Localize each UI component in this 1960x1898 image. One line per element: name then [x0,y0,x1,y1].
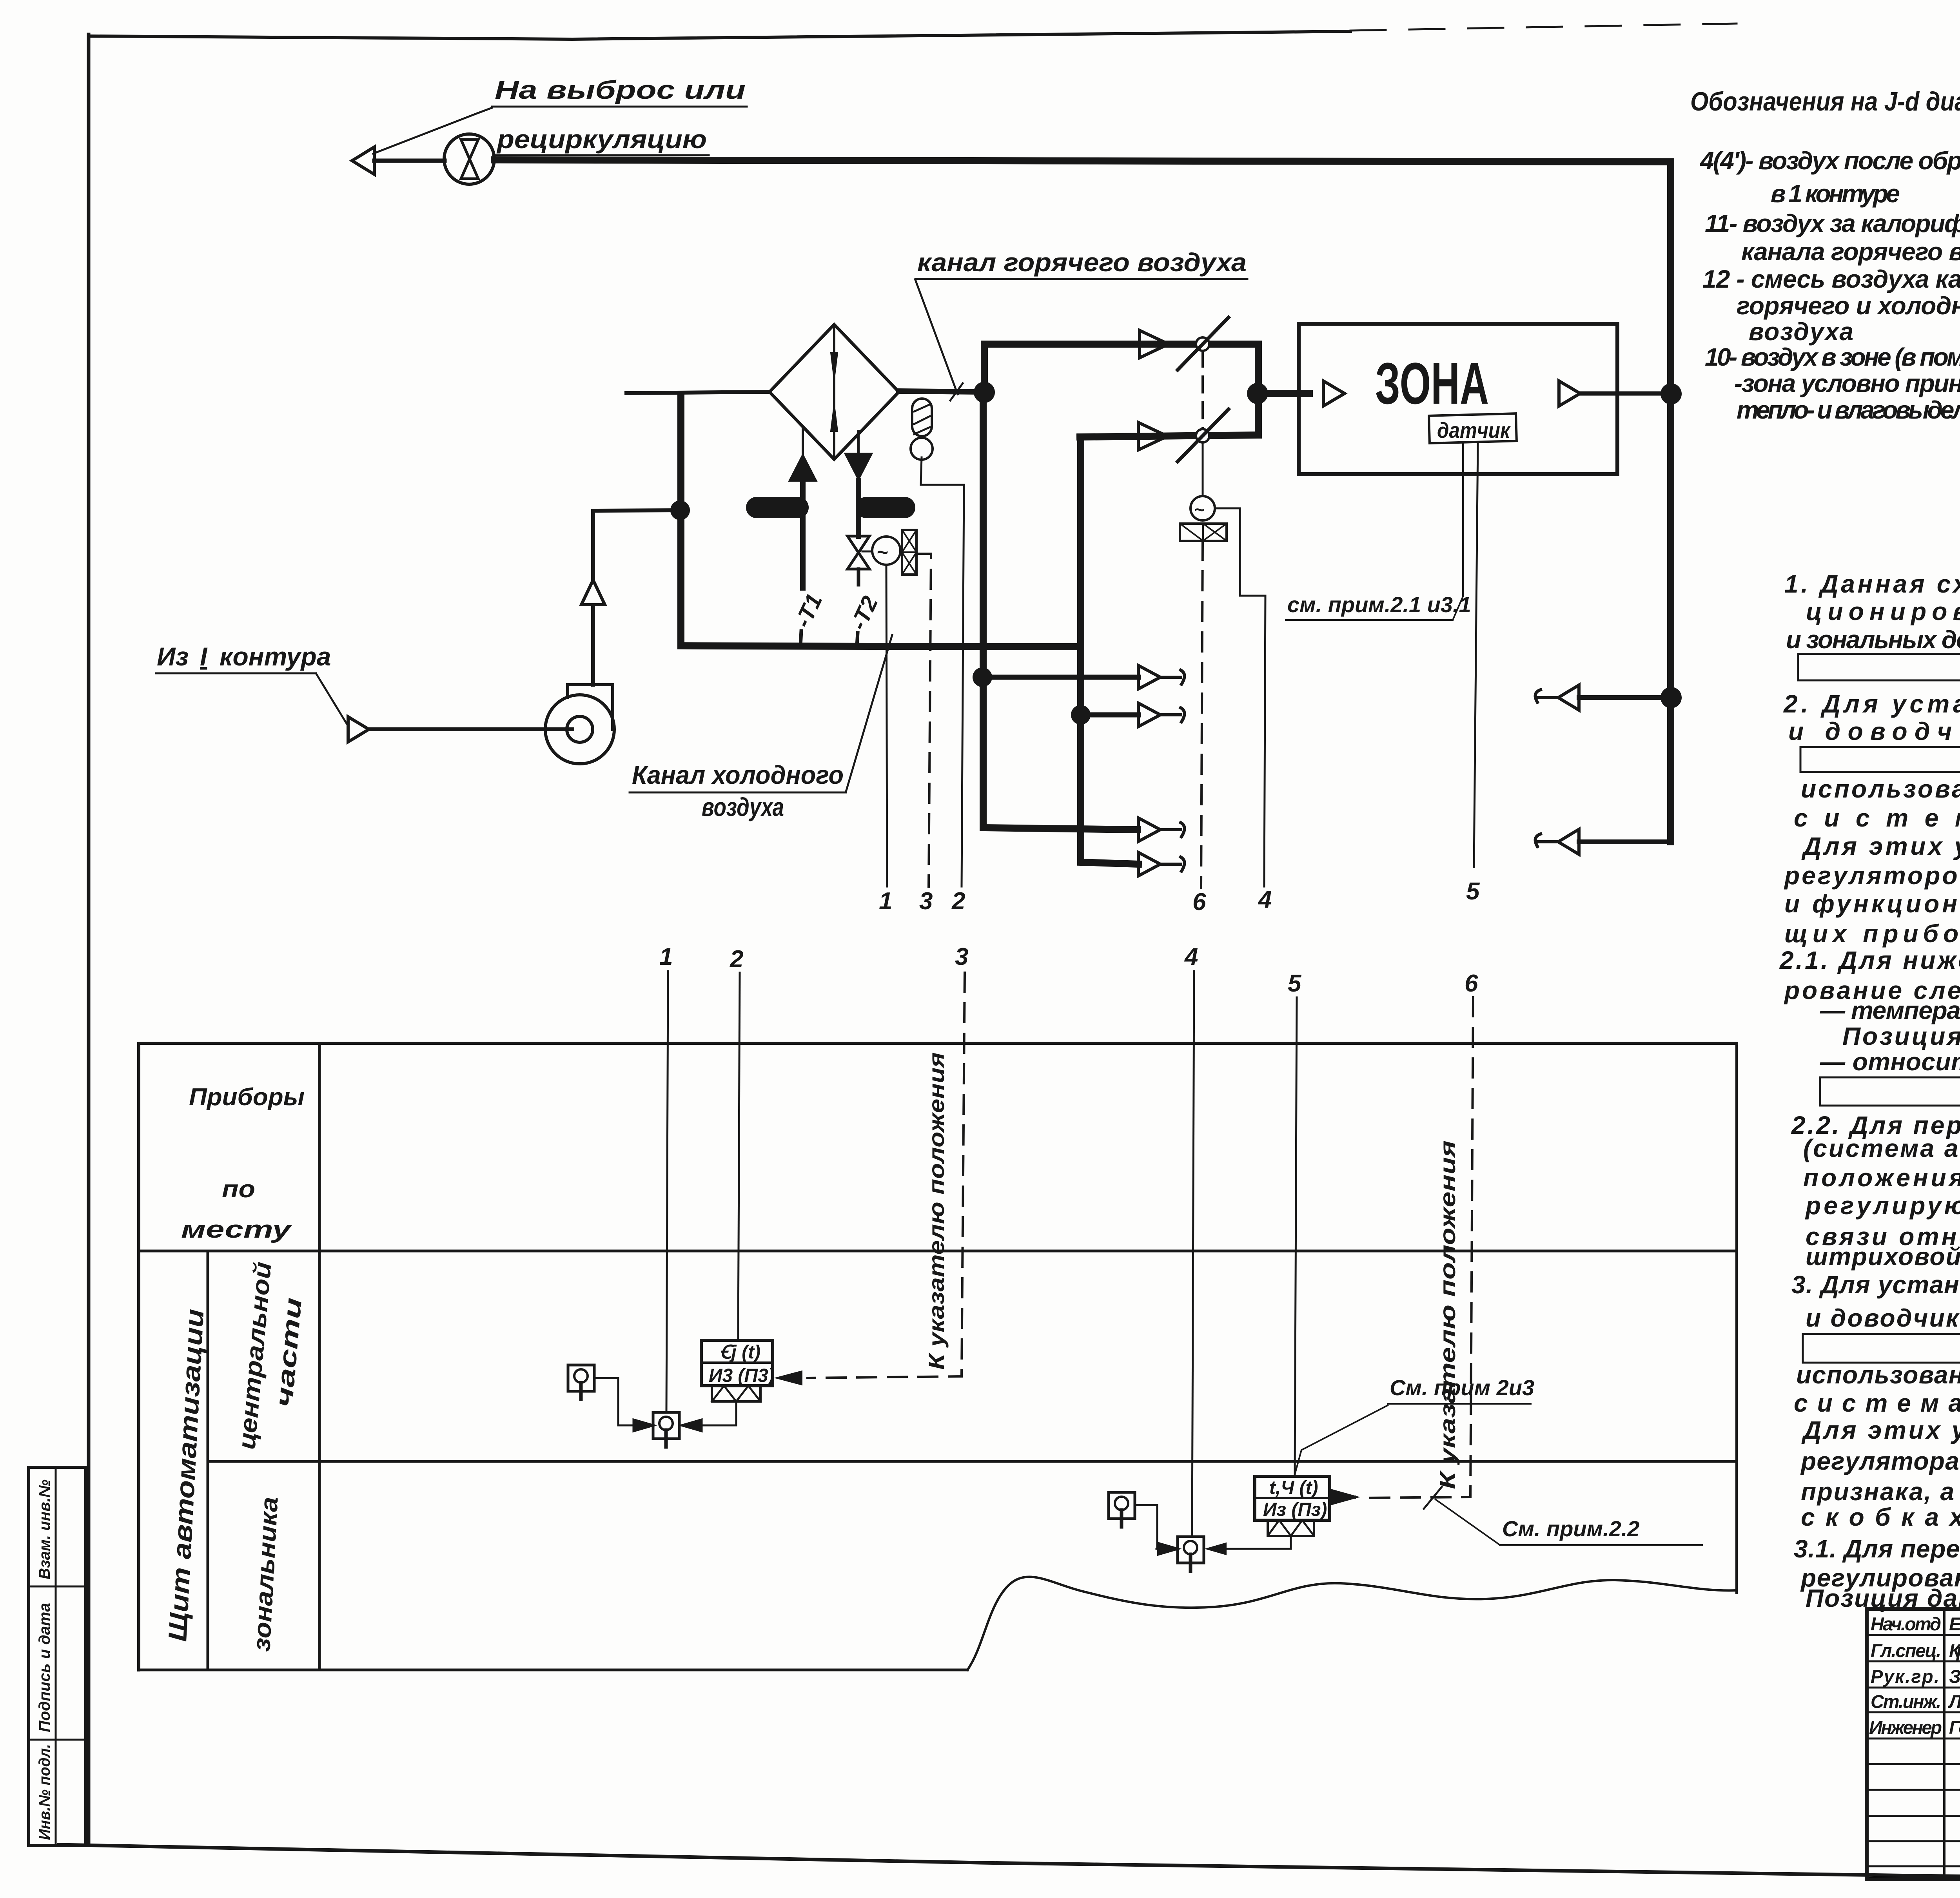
wire recirculation line (return duct top) [494,160,1671,162]
svg-text:11- воздух за калорифером: 11- воздух за калорифером [1705,209,1960,237]
label 2 row1 [951,888,965,915]
label 5 row1 [1466,878,1480,905]
label zonalnika (rotated) [248,1496,283,1652]
zone box [1299,324,1617,474]
svg-text:~: ~ [1194,499,1205,520]
damper position transmitter (rect with X) [1180,524,1227,541]
svg-text:ционирования: ционирования [1806,597,1960,625]
label sm prim 2.1 i 3.1 [1287,592,1471,617]
wire mixed air out [1258,390,1309,397]
arrow into zone (hollow right) [1323,381,1345,406]
svg-text:использован регулирующий прибо: использован регулирующий прибор РТЗ с им… [1796,1361,1960,1389]
heat exchanger diamond [769,324,899,459]
svg-text:датчик: датчик [1437,418,1511,442]
wire main line left stub [626,392,769,393]
regulator 2 actuator (zigzag) [1268,1520,1314,1536]
wire damper to motor [1202,442,1204,496]
svg-text:5: 5 [1466,878,1480,905]
svg-text:Ꞓj (t): Ꞓj (t) [720,1342,760,1363]
valve position transmitter (rect with X) [902,530,916,575]
svg-text:ЗОНА: ЗОНА [1375,350,1489,416]
wire into fan [369,727,572,731]
wire zone feed 2 [1081,712,1138,718]
panel table column shchit [207,1251,209,1670]
heat exchanger internal line with arrows [833,324,835,459]
fill-in box note2 c [1800,747,1960,772]
label K ukazatelyu polozheniya 1 [924,1052,949,1370]
leader kanal kholodnogo [846,635,892,792]
svg-text:— температуры, доводчики: — температуры, доводчики [1820,996,1960,1024]
svg-text:-зона условно принята с: -зона условно принята с [1734,369,1960,397]
arrow T1 up (solid) [789,454,817,481]
wire signal line 4 (damper motor control) [1215,508,1265,886]
label 4 row2 [1184,943,1198,970]
svg-text:3. Для установок: 3. Для установок [1791,1271,1960,1299]
panel table row line 1 [139,1250,1737,1253]
tail zone feed 1 [1160,670,1185,684]
label Iz I kontura [157,642,331,671]
arrow zone feed 4 (hollow right) [1138,852,1160,876]
sensor instrument 2 (square with circle) [1109,1492,1135,1519]
panel table column mesto [318,1043,321,1670]
arrow zone feed 1 (hollow right) [1138,665,1160,689]
svg-text:6: 6 [1465,970,1478,997]
arrow hot lower (hollow right) [1138,422,1167,450]
wire T2 dash to cold duct [857,633,858,646]
node cold/main tee [670,500,690,520]
sheet frame left border [87,34,91,1844]
arrow zone feed 2 (hollow right) [1138,703,1160,727]
wire signal line 1 (valve motor control) [886,565,887,886]
svg-text:канала горячего воздуха: канала горячего воздуха [1741,237,1960,266]
arrow out of regulator 2 (solid right) [1330,1491,1354,1503]
wire sensor1 to mixer1 [594,1378,646,1425]
arrow fan outlet (hollow, up) [581,580,605,605]
svg-text:тепло- и влаговыделениями: тепло- и влаговыделениями [1737,396,1960,424]
wire T1 dash to cold duct [800,631,801,646]
label 1 row1 [879,888,892,915]
svg-text:и зональных доводчиков: и зональных доводчиков [1786,625,1960,654]
svg-text:в 1 контуре: в 1 контуре [1771,179,1900,208]
svg-text:t,Ч (t): t,Ч (t) [1269,1477,1318,1498]
svg-text:по: по [222,1176,255,1203]
wire cold riser to zone branches [983,392,1138,830]
leader kanal goryachego [915,280,958,394]
svg-text:3.1. Для перечисленных в п: 3.1. Для перечисленных в пункте 3 доводч… [1794,1535,1960,1563]
svg-text:регулирующий прибор Р 25.1.: регулирующий прибор Р 25.1.2 индикатору.… [1805,1191,1960,1220]
wire sensor2 to mixer2 [1135,1505,1171,1549]
leader Sm prim 2i3 to regulator2 [1294,1405,1388,1476]
wire zone output to return [1580,392,1671,396]
fill-in box note3 c [1803,1334,1960,1363]
svg-text:Ст.инж.: Ст.инж. [1871,1691,1941,1712]
legend line 4(4') [1699,147,1960,424]
svg-text:К указателю положения: К указателю положения [1435,1140,1460,1489]
arrow out of zone (hollow right) [1559,381,1580,406]
svg-text:регулятора обозначения регули: регулятора обозначения регулируемой вели… [1800,1447,1960,1475]
svg-text:Лазаренко: Лазаренко [1948,1691,1960,1712]
label underline 2 [493,154,709,156]
tail zone feed 4 [1160,857,1185,871]
wire panel line 6 dashed [1360,997,1473,1498]
title block signer labels [1869,1613,1960,1738]
mixer instrument 2 (square with circle) [1178,1537,1204,1563]
regulator 1 box [701,1340,773,1386]
wire mixing connector vertical [1255,344,1262,435]
arrow from I kontur (hollow, pointing right) [348,717,369,742]
label underline 1 [492,106,747,108]
panel table left border [137,1043,140,1670]
title block outer frame [1867,1609,1960,1879]
mixer instrument 1 (square with circle) [653,1412,679,1439]
label 6 row2 [1465,970,1478,997]
label T1 [790,590,828,631]
wire panel line 5 [1295,997,1297,1476]
label K ukazatelyu polozheniya 2 [1435,1140,1460,1489]
wire exhaust arrow to damper [374,159,445,163]
label 3 row2 [955,943,968,970]
svg-text:Для этих установок и довод: Для этих установок и доводчиков в условн… [1801,832,1960,860]
svg-text:(система автоматизации 1 клас: (система автоматизации 1 класса) предусм… [1803,1134,1960,1162]
svg-text:Гл.спец.: Гл.спец. [1871,1640,1941,1661]
svg-text:См. прим 2и3: См. прим 2и3 [1390,1375,1534,1400]
arrow return branch 2 (hollow, pointing left) [1558,829,1579,854]
leader Iz I kontura [316,673,347,723]
svg-text:см. прим.2.1 и3.1: см. прим.2.1 и3.1 [1287,592,1471,617]
label Oboznacheniya na J-d diagramme [1690,87,1960,116]
svg-text:1: 1 [659,943,673,970]
label 1 row2 [659,943,673,970]
svg-text:Рук.гр.: Рук.гр. [1871,1666,1939,1687]
svg-text:положения исполнительных мех: положения исполнительных механизмов по в… [1803,1164,1960,1192]
wire panel line 4 [1192,971,1194,1537]
panel table top line [139,1042,1737,1045]
label underline Iz I kontura [156,673,316,674]
wire T1 pipe upper thin [802,428,804,455]
valve motor (circle with ~) [872,537,900,565]
svg-text:5: 5 [1288,970,1302,997]
underline sm prim 2.1 i 3.1 [1286,619,1453,621]
svg-text:рециркуляцию: рециркуляцию [496,125,707,154]
svg-text:Инв.№ подл.: Инв.№ подл. [36,1744,53,1840]
svg-text:Горшенина: Горшенина [1949,1717,1960,1738]
label 5 row2 [1288,970,1302,997]
svg-text:воздуха: воздуха [702,792,784,821]
leader to exhaust arrow [373,108,492,154]
svg-text:Нач.отд: Нач.отд [1871,1613,1941,1634]
underline kanal goryachego [915,278,1247,280]
label T2 [846,592,883,634]
valve T2 (bowtie) [848,536,869,569]
svg-text:И3 (П3): И3 (П3) [709,1365,775,1386]
wire main line diamond to junction [899,391,985,392]
recirculation damper circle with bowtie [444,134,494,184]
wire zone feed 1 [982,675,1138,680]
underline kanal kholodnogo [630,792,846,794]
node return branch junction [1661,687,1682,708]
svg-text:6: 6 [1192,888,1206,915]
wire T2 pipe thick [856,480,861,536]
arrow hot upper (hollow right) [1140,330,1169,358]
regulator 1 actuator (zigzag) [712,1386,760,1401]
node hot/cold split junction [974,382,995,403]
svg-text:~: ~ [877,541,888,563]
heater bar T1 (supply) [757,497,798,518]
label tsentralnoy chasti (rotated) [233,1261,307,1450]
label 4 row1 [1258,886,1272,913]
label Sm prim 2i3 [1390,1375,1534,1400]
svg-text:использован регулирующий прибо: использован регулирующий прибор Р25.1.2 … [1801,775,1960,803]
node zone feed 1 junction [973,667,992,687]
label kanal goryachego vozdukha [917,248,1247,277]
svg-text:I: I [200,642,208,671]
svg-text:4: 4 [1258,886,1272,913]
wire T2 pipe upper thin [857,431,860,455]
label regulator 1 cells [709,1342,775,1386]
wire hot branch lower [1080,435,1258,437]
arrow into regulator 1 (solid left) [775,1371,802,1385]
left margin stamp strip divider 2 [29,1739,86,1741]
damper hot upper (circle with slash) [1196,337,1209,351]
sheet frame top border [89,31,1350,39]
arrow return branch 1 (hollow, pointing left) [1558,685,1579,710]
panel table row line 2 [208,1460,1737,1463]
svg-text:с и с т е м а а в т о м а т: с и с т е м а а в т о м а т и з а ц и и … [1794,804,1960,832]
wire return duct right riser [1667,162,1674,842]
wire fan outlet riser [591,605,595,685]
svg-text:10- воздух в зоне (в помещений: 10- воздух в зоне (в помещений) [1705,343,1960,371]
leader sm prim to datchik [1453,442,1463,620]
node mixed air junction [1247,383,1268,404]
svg-text:Зингерман: Зингерман [1949,1666,1960,1687]
svg-text:Из (Пз): Из (Пз) [1263,1499,1327,1520]
sensor instrument 1 (square with circle) [568,1365,594,1391]
svg-text:контура: контура [220,642,331,671]
damper hot lower (circle with slash) [1196,429,1209,442]
leader Sm prim 2.2 to cross [1436,1499,1500,1545]
svg-text:месту: месту [181,1216,293,1243]
svg-text:горячего и холодного: горячего и холодного [1737,292,1960,320]
svg-text:с и с т е м а а в т о м а т: с и с т е м а а в т о м а т и з а ц и и … [1794,1389,1960,1417]
svg-text:К указателю положения: К указателю положения [924,1052,949,1370]
sheet frame top border dashed middle [1350,24,1737,31]
svg-text:2.1. Для нижеперечисленных до: 2.1. Для нижеперечисленных доводчиков пр… [1779,946,1960,974]
svg-text:Из: Из [157,642,189,671]
svg-text:1: 1 [879,888,892,915]
label kanal kholodnogo vozdukha [632,760,844,821]
wire signal line 3 dashed (valve position) [916,554,931,886]
air temperature sensor capsule [912,399,932,436]
underline Sm prim 2.2 [1500,1544,1702,1546]
svg-text:4(4')- воздух после обработки: 4(4')- воздух после обработки [1699,147,1960,175]
svg-text:Крастошевский: Крастошевский [1949,1640,1960,1661]
title block verticals [1943,1609,1945,1879]
panel table bottom line [139,1669,967,1671]
svg-text:и доводчиков: и доводчиков [1806,1304,1960,1332]
break wavy line [967,1577,1737,1670]
wire panel line 2 [738,973,740,1340]
svg-text:Подпись и дата: Подпись и дата [36,1603,53,1732]
arrow into mixer1 left [632,1419,654,1431]
svg-text:признака, а также позиция: признака, а также позиция регулирующего … [1801,1477,1960,1506]
fill-in box vlazhnost continuation [1820,1077,1960,1106]
underline Sm prim 2i3 [1388,1403,1531,1405]
wire signal line 2 (temperature sensor) [962,485,964,886]
wire hot riser to zone branches [1081,437,1138,864]
svg-text:4: 4 [1184,943,1198,970]
datchik box [1429,413,1517,443]
tail zone feed 2 [1160,708,1185,722]
wire zone return branch 1 [1579,695,1671,700]
svg-text:Для этих установок и довод: Для этих установок и доводчиков в условн… [1801,1416,1960,1444]
sheet frame bottom border [59,1845,1960,1887]
wire panel line 1 [666,971,668,1412]
exhaust arrow (hollow, pointing left) [352,147,374,174]
label Sm prim 2.2 [1502,1516,1639,1541]
wire signal line 5 (zone sensor) [1474,443,1478,867]
node zone feed 2 junction [1071,705,1091,725]
heater bar T2 (return) [866,497,905,518]
arrow zone feed 3 (hollow right) [1138,818,1160,841]
wire signal line 6 dashed (damper position) [1201,541,1203,888]
svg-text:1. Данная схема применена дл: 1. Данная схема применена для следующих … [1784,570,1960,598]
label 6 row1 [1192,888,1206,915]
svg-text:Обозначения на Ј-d диаграмме: Обозначения на Ј-d диаграмме [1690,87,1960,116]
wire cold duct horizontal [681,646,1081,647]
regulator 2 box [1255,1476,1330,1520]
wire panel line 3 dashed [808,973,965,1378]
fill-in box note1 c [1798,654,1960,680]
wire riser above arrow [593,510,680,580]
svg-text:2: 2 [730,946,743,973]
svg-text:канал горячего воздуха: канал горячего воздуха [917,248,1247,277]
svg-text:3: 3 [919,888,933,915]
arrow T2 down (solid) [844,453,873,480]
damper motor (circle with ~) [1191,496,1215,520]
label ZONA [1375,350,1489,416]
svg-text:регуляторов обозначения возм: регуляторов обозначения возможных регули… [1784,861,1960,890]
svg-text:См. прим.2.2: См. прим.2.2 [1502,1516,1639,1541]
svg-text:— относительной влажности, до: — относительной влажности, доводчики [1820,1048,1960,1076]
left margin stamp strip frame [29,1467,86,1845]
left margin stamp strip divider 1 [29,1586,86,1588]
node return/zone output junction [1661,383,1682,404]
label 3 row1 [919,888,933,915]
wire sensor to line2 [921,457,964,485]
label Shchit avtomatizatsii (rotated) [163,1308,209,1642]
label Pribory po mestu [181,1084,305,1243]
wire T1 pipe thick [800,481,806,588]
panel table right border [1735,1043,1738,1593]
label datchik [1437,418,1511,442]
title block left rows [1867,1635,1960,1866]
svg-text:Евтушенко: Евтушенко [1949,1613,1960,1634]
tick hot channel leader mark [950,383,963,401]
svg-text:Приборы: Приборы [189,1084,305,1111]
svg-text:Канал холодного: Канал холодного [632,760,844,789]
label 2 row2 [730,946,743,973]
tail zone feed 3 [1160,823,1185,837]
tail return branch 1 [1535,690,1558,702]
svg-text:На выброс или: На выброс или [495,75,746,104]
wire zone return branch 2 [1579,839,1671,844]
svg-text:3: 3 [955,943,968,970]
cross mark on line 6 [1424,1487,1442,1509]
notes text block [1779,570,1960,1612]
svg-text:воздуха: воздуха [1749,317,1853,346]
svg-text:2: 2 [951,888,965,915]
label Na vybros ili recirkulyaciyu [495,75,746,154]
svg-text:Позиция датчика: Позиция датчика [1842,1022,1960,1050]
label regulator 2 cells [1263,1477,1327,1520]
wire main riser to HX line [677,395,684,645]
wire regulator2 output to mixer2 [1208,1536,1291,1549]
wire hot branch upper [984,344,1255,392]
wire T2 valve stub [857,569,860,585]
arrow into mixer2 left [1156,1543,1178,1555]
fan (supply ventilator) [545,695,614,764]
svg-text:Взам. инв.№: Взам. инв.№ [36,1479,53,1579]
svg-text:12 - смесь воздуха каналов: 12 - смесь воздуха каналов [1702,265,1960,293]
dashed link between dampers [1201,351,1204,429]
svg-text:штриховой линией.: штриховой линией. [1806,1242,1960,1271]
wire regulator1 output to mixer1 [681,1401,736,1431]
tail return branch 2 [1535,834,1558,847]
left margin stamp strip divider vertical [55,1467,57,1845]
svg-text:Инженер: Инженер [1869,1717,1942,1738]
air temperature sensor head circle [911,438,933,460]
